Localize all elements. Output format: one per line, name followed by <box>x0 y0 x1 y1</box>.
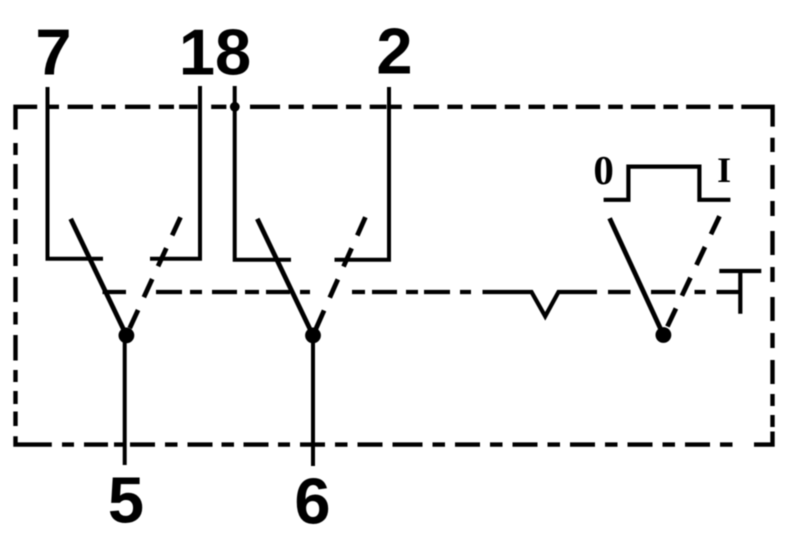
switch pole 1 moving contact (open position, dashed) <box>126 217 180 335</box>
mechanical coupling line continuation to actuator <box>608 290 739 294</box>
momentary-return symbol (T) at right end of coupling <box>719 271 761 314</box>
actuator moving lever (solid) <box>610 218 664 335</box>
switch pole 2 moving contact (open position, dashed) <box>313 217 365 335</box>
node: junction dot on border at terminal 18 line <box>230 102 240 112</box>
wire: terminal 7 lead with left fixed contact bracket <box>48 87 104 259</box>
switch pole 2 moving contact (closed position, solid) <box>257 219 313 336</box>
wire: terminal 1 lead with right fixed contact bracket (pole 1) <box>150 86 200 259</box>
housing border top edge (dash-dot) <box>16 107 773 130</box>
wire: terminal 5 lead from pole 1 pivot <box>123 335 127 465</box>
svg-text:6: 6 <box>294 465 330 533</box>
housing border bottom edge (dash-dot) <box>16 432 773 445</box>
actuator lever alternate position (dashed) <box>663 216 719 335</box>
actuator position indicator (pulse between 0 and I) <box>604 167 731 200</box>
wire: terminal 8 lead with left fixed contact bracket (pole 2) <box>235 86 291 260</box>
node: pivot of actuator <box>656 327 672 343</box>
svg-text:5: 5 <box>108 464 144 533</box>
svg-text:7: 7 <box>35 16 71 89</box>
svg-text:18: 18 <box>179 16 251 89</box>
mechanical coupling line (dash-dot) <box>103 290 472 294</box>
node: pivot of pole 1 <box>119 328 135 344</box>
mechanical coupling latch notch (solid V) <box>483 292 598 316</box>
svg-text:0: 0 <box>593 147 614 193</box>
node: pivot of pole 2 <box>305 328 321 344</box>
switch pole 1 moving contact (closed position, solid) <box>71 219 127 336</box>
housing border left edge (dash-dot) <box>13 143 17 426</box>
svg-text:I: I <box>717 150 731 190</box>
svg-text:2: 2 <box>376 15 412 88</box>
wire: terminal 6 lead from pole 2 pivot <box>311 335 315 466</box>
housing border right edge (dash-dot) <box>770 138 774 427</box>
wire: terminal 2 lead with right fixed contact bracket (pole 2) <box>335 87 390 260</box>
